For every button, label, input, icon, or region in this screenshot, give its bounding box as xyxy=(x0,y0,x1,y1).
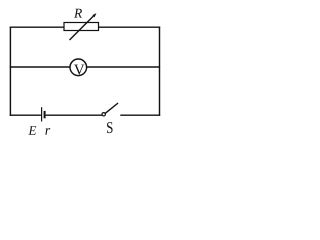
wire: middle right segment xyxy=(87,66,160,68)
label R xyxy=(74,9,82,18)
wire: top right segment xyxy=(98,26,160,28)
battery cell E r xyxy=(42,107,46,121)
label E xyxy=(28,126,36,135)
voltmeter U1 xyxy=(70,59,87,76)
wire: right vertical edge xyxy=(159,27,161,116)
switch S blade xyxy=(105,103,118,113)
switch S contact circle xyxy=(102,113,105,116)
wire: top left segment xyxy=(10,26,65,28)
wire: bottom right segment xyxy=(120,114,160,116)
resistor R (rheostat body) xyxy=(64,23,99,31)
wire: bottom left segment xyxy=(10,114,41,116)
wire: bottom middle segment (battery to switch) xyxy=(46,114,102,116)
rheostat arrow (diagonal slash) xyxy=(70,13,97,40)
label r xyxy=(45,128,50,135)
wire: middle left segment xyxy=(10,66,70,68)
label S xyxy=(107,122,113,133)
wire: left vertical edge xyxy=(9,27,11,116)
